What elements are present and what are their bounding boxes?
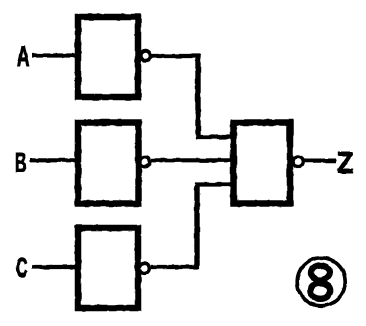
svg-text:Z: Z [337,146,354,180]
svg-text:C: C [16,253,28,283]
svg-text:B: B [15,148,27,178]
svg-text:A: A [17,41,30,73]
